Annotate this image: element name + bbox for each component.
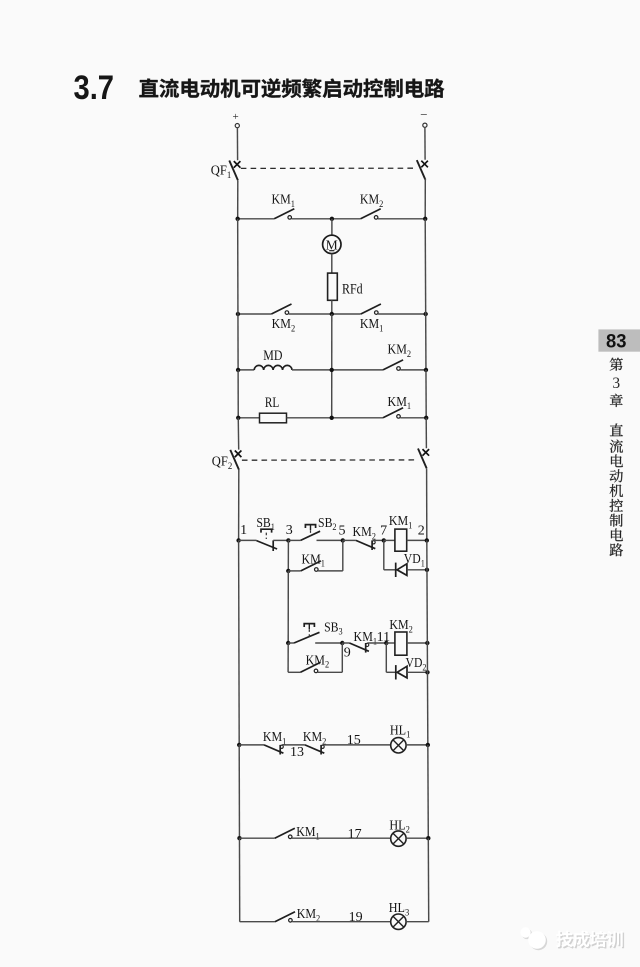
terminal +: [232, 111, 239, 128]
wire: [292, 921, 391, 923]
svg-text:5: 5: [339, 524, 346, 539]
title text: [139, 78, 444, 98]
contact KM2 NO lamp: [275, 912, 295, 922]
svg-text:MD: MD: [263, 348, 282, 364]
wire bus2 right: [378, 313, 426, 315]
contact KM2 aux field: [383, 360, 403, 370]
node 2: [425, 538, 429, 542]
contact KM2 main lower: [271, 304, 291, 314]
wire: [239, 744, 264, 746]
wire bus1 mid: [292, 218, 361, 220]
pushbutton SB1: [257, 529, 278, 551]
wire: [318, 671, 343, 673]
node 7: [382, 538, 386, 542]
svg-text:19: 19: [349, 910, 363, 925]
wire left rail: [238, 469, 240, 540]
wire: [282, 744, 305, 746]
svg-text:−: −: [420, 107, 427, 122]
wire: [406, 921, 429, 923]
coil KM2: [395, 632, 407, 655]
wire node5 column: [342, 540, 344, 571]
node 3b: [286, 641, 290, 645]
wire: [406, 837, 428, 839]
wire bus2 left: [238, 313, 271, 315]
svg-text:SB3: SB3: [324, 620, 343, 637]
svg-text:KM2: KM2: [389, 618, 413, 635]
wire left rail: [238, 745, 240, 838]
sidebar chapter text: [610, 358, 623, 556]
contact KM1 self-hold: [301, 561, 321, 571]
wire: [367, 642, 386, 644]
node MD center: [330, 368, 334, 372]
node bus1 center: [330, 217, 334, 221]
wire left rail: [237, 219, 239, 314]
node R-L1: [426, 743, 430, 747]
node RL right: [424, 416, 428, 420]
node R-L2: [426, 836, 430, 840]
breaker pole QF2 left: [230, 450, 241, 470]
node bus2 left: [236, 312, 240, 316]
node RL left: [236, 416, 240, 420]
svg-text:17: 17: [348, 827, 362, 842]
contact KM1 interlock NC: [350, 643, 369, 653]
wire: [240, 921, 275, 923]
svg-text:SB2: SB2: [318, 516, 337, 533]
wire node9 column: [341, 643, 343, 672]
wire: [407, 671, 427, 673]
breaker link QF1: [241, 167, 417, 169]
wire: [407, 539, 427, 541]
wire right rail: [427, 540, 428, 745]
wire left rail: [237, 418, 239, 450]
breaker pole QF1 left: [229, 161, 240, 181]
wire: [273, 539, 288, 541]
watermark text: [556, 931, 624, 949]
svg-text:9: 9: [344, 645, 351, 660]
wire: [407, 642, 427, 644]
wire: [331, 254, 333, 274]
wire bus2 mid: [289, 313, 361, 315]
svg-text:+: +: [232, 111, 238, 123]
wire right rail: [426, 468, 428, 540]
svg-text:KM2: KM2: [306, 653, 330, 670]
svg-text:VD2: VD2: [406, 656, 427, 673]
contact KM1 NO lamp: [275, 828, 295, 838]
page number band: [598, 329, 640, 351]
terminal -: [420, 107, 427, 127]
wire bus1 left: [238, 218, 275, 220]
wire RL row right: [400, 417, 426, 419]
svg-text:KM1: KM1: [296, 825, 320, 842]
contact KM1 NC lamp: [264, 745, 283, 755]
svg-text:KM1: KM1: [301, 552, 325, 569]
pushbutton SB2: [301, 525, 321, 541]
wire: [406, 744, 428, 746]
wire right rail: [425, 418, 427, 448]
wire right rail: [427, 838, 429, 922]
svg-text:HL1: HL1: [390, 723, 411, 740]
wire right rail: [427, 745, 429, 838]
svg-text:KM2: KM2: [388, 342, 412, 359]
svg-text:KM1: KM1: [388, 395, 412, 412]
wire left rail: [238, 838, 240, 922]
node 1: [236, 538, 240, 542]
wire node3 column lower: [287, 571, 289, 643]
wire MD row mid: [292, 369, 383, 371]
node bus2 center: [330, 312, 334, 316]
wire center column: [331, 314, 333, 418]
wire node3 column end: [287, 643, 289, 672]
node 5: [341, 538, 345, 542]
svg-text:HL2: HL2: [389, 818, 410, 835]
wire: [317, 539, 343, 541]
svg-text:3: 3: [286, 523, 293, 538]
coil KM1: [395, 529, 407, 551]
wire left rail: [238, 540, 241, 745]
breaker link QF2: [242, 459, 418, 461]
wire: [288, 570, 301, 572]
inductor MD: [254, 365, 292, 370]
wire right rail: [425, 370, 427, 418]
svg-text:1: 1: [240, 523, 247, 538]
svg-text:KM1: KM1: [354, 630, 378, 647]
wire MD row right: [400, 369, 426, 371]
node VD1 rail: [425, 568, 429, 572]
contact KM1 main forward: [274, 209, 294, 219]
resistor RL: [260, 413, 287, 423]
svg-text:RFd: RFd: [342, 281, 363, 297]
node MD left: [236, 368, 240, 372]
node 3: [286, 538, 290, 542]
wire: [384, 539, 395, 541]
node 11: [384, 641, 388, 645]
node VD2 rail: [425, 670, 429, 674]
wire RL row left: [238, 417, 259, 419]
wire: [292, 837, 391, 839]
svg-text:KM2: KM2: [272, 317, 296, 334]
svg-text:2: 2: [418, 524, 425, 539]
node bus2 right: [423, 312, 427, 316]
node rail r2: [425, 641, 429, 645]
lamp HL2: [391, 831, 406, 846]
wire node3 column: [287, 540, 289, 571]
wire: [239, 837, 274, 839]
motor M: [323, 235, 341, 253]
wire node11 column: [385, 643, 387, 672]
svg-text:KM1: KM1: [360, 317, 384, 334]
node L1: [237, 743, 241, 747]
node 3a: [286, 569, 290, 573]
contact KM2 main reverse: [361, 209, 381, 219]
svg-text:7: 7: [380, 524, 387, 539]
wire: [331, 300, 333, 314]
wire node7 column: [383, 540, 385, 569]
svg-text:SB1: SB1: [256, 516, 275, 533]
wire: [342, 642, 349, 644]
wire: [386, 671, 396, 673]
wire RL row mid: [287, 417, 384, 419]
breaker pole QF1 right: [417, 160, 428, 180]
breaker pole QF2 right: [418, 449, 429, 469]
wire: [315, 642, 342, 644]
wire: [237, 180, 239, 219]
lamp HL3: [391, 914, 406, 929]
diode VD2: [396, 665, 407, 679]
wire: [288, 671, 300, 673]
node bus1 right: [423, 217, 427, 221]
svg-text:3: 3: [612, 375, 620, 392]
svg-text:QF1: QF1: [211, 164, 232, 181]
svg-text:KM1: KM1: [389, 514, 413, 531]
contact KM2 interlock NC: [356, 540, 375, 550]
wire left rail: [237, 314, 239, 370]
wire: [343, 539, 356, 541]
wire: [239, 539, 257, 541]
node bus1 left: [235, 217, 239, 221]
resistor RFd: [328, 273, 338, 300]
svg-text:KM1: KM1: [271, 193, 295, 210]
wire left rail: [237, 370, 239, 418]
node MD right: [424, 368, 428, 372]
node 9: [340, 641, 344, 645]
diode VD1: [396, 563, 407, 577]
wire right rail: [425, 314, 427, 370]
wire: [236, 128, 238, 161]
svg-text:M: M: [326, 237, 338, 252]
wire: [386, 642, 395, 644]
wire: [288, 539, 300, 541]
svg-text:VD1: VD1: [404, 552, 425, 569]
svg-text:13: 13: [290, 745, 304, 760]
svg-text:RL: RL: [265, 395, 279, 411]
svg-text:QF2: QF2: [212, 455, 233, 472]
wire: [331, 219, 333, 235]
lamp HL1: [391, 738, 406, 753]
wire: [424, 127, 426, 160]
wire: [384, 569, 396, 571]
svg-text:KM2: KM2: [360, 193, 384, 210]
svg-text:HL3: HL3: [389, 901, 410, 918]
contact KM2 NC lamp: [305, 745, 324, 755]
node RL center: [330, 416, 334, 420]
wire: [323, 744, 391, 746]
wire MD row left: [238, 369, 254, 371]
contact KM1 main lower: [361, 304, 381, 314]
svg-text:83: 83: [606, 331, 627, 353]
svg-text:KM2: KM2: [352, 525, 376, 542]
wire bus1 right: [378, 218, 425, 220]
wire right rail: [424, 219, 426, 314]
svg-text:15: 15: [347, 733, 361, 748]
wire: [407, 569, 427, 571]
watermark logo: [520, 927, 547, 950]
pushbutton SB3: [294, 624, 320, 643]
wire: [424, 178, 426, 218]
contact KM2 self-hold: [301, 662, 321, 672]
contact KM1 aux field: [383, 408, 403, 418]
node L2: [237, 836, 241, 840]
wire: [318, 570, 343, 572]
svg-text:3.7: 3.7: [74, 69, 115, 107]
wire: [374, 539, 384, 541]
wire: [288, 642, 294, 644]
